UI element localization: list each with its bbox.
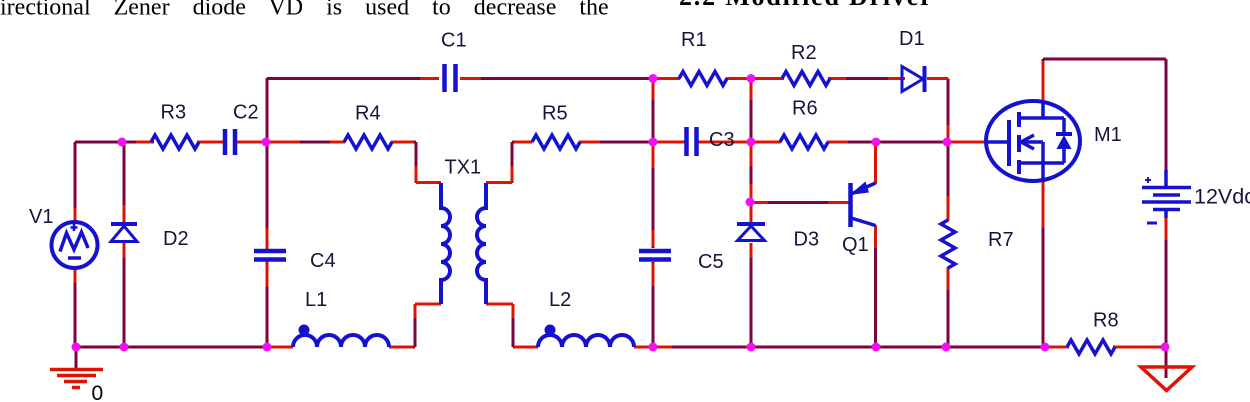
svg-text:R4: R4 — [355, 103, 381, 125]
svg-text:R3: R3 — [161, 102, 187, 124]
svg-text:R8: R8 — [1093, 310, 1119, 332]
svg-text:TX1: TX1 — [445, 157, 482, 179]
svg-text:D2: D2 — [163, 228, 189, 250]
svg-text:L1: L1 — [305, 289, 327, 311]
svg-text:Q1: Q1 — [842, 234, 869, 256]
svg-text:R2: R2 — [791, 42, 817, 64]
svg-text:C5: C5 — [698, 251, 724, 273]
svg-text:irectional Zener diode VD is u: irectional Zener diode VD is used to dec… — [0, 0, 609, 21]
svg-text:R5: R5 — [542, 103, 568, 125]
svg-text:D1: D1 — [899, 28, 925, 50]
svg-text:12Vdc: 12Vdc — [1194, 185, 1250, 209]
svg-text:R6: R6 — [792, 98, 818, 120]
svg-text:V1: V1 — [29, 206, 53, 228]
svg-text:C2: C2 — [233, 102, 259, 124]
svg-text:C4: C4 — [310, 250, 336, 272]
svg-text:M1: M1 — [1094, 124, 1122, 146]
svg-text:C1: C1 — [441, 30, 467, 52]
svg-text:R7: R7 — [988, 229, 1014, 251]
svg-text:D3: D3 — [794, 229, 820, 251]
svg-text:0: 0 — [92, 382, 104, 402]
svg-text:2.2 Modified Driver: 2.2 Modified Driver — [679, 0, 933, 11]
svg-text:L2: L2 — [549, 289, 571, 311]
svg-text:C3: C3 — [709, 129, 735, 151]
svg-text:R1: R1 — [681, 29, 707, 51]
